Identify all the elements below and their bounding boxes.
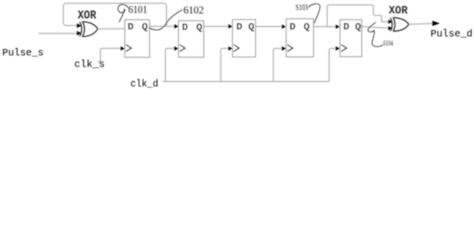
wire Q4 over-route staircase to XOR2 top input: [327, 5, 388, 27]
svg-text:6101: 6101: [128, 5, 147, 16]
clock chevron U3: [234, 45, 239, 52]
wire clk_d riser U4: [273, 48, 281, 81]
wire Q4 to D5: [314, 26, 336, 28]
leader S103: [309, 4, 321, 29]
clock arrow U5: [336, 46, 340, 50]
wire Q5 to XOR2 bottom input: [362, 27, 388, 29]
wire Q2 to D3: [204, 25, 229, 27]
flip-flop U5 box: [340, 20, 362, 57]
flip-flop U2 box: [179, 21, 204, 58]
svg-text:Q: Q: [248, 23, 254, 34]
leader 6102: [149, 10, 183, 30]
clock arrow U1: [121, 46, 125, 50]
arrow into D3: [228, 24, 232, 28]
arrow XOR1 input bottom: [77, 31, 82, 36]
svg-text:XOR: XOR: [78, 9, 97, 23]
svg-text:6102: 6102: [183, 6, 203, 17]
clock arrow U4: [282, 46, 286, 50]
gate XOR2: [390, 18, 408, 32]
leader 6104: [368, 22, 383, 46]
wire XOR2 output: [409, 23, 433, 26]
svg-text:Pulse_d: Pulse_d: [431, 28, 473, 40]
wire clk_d rail: [165, 81, 329, 83]
svg-text:Pulse_s: Pulse_s: [2, 47, 44, 59]
svg-text:D: D: [236, 23, 242, 34]
tick clk_d rail foot: [163, 81, 168, 83]
wire clk_d riser U3: [221, 48, 228, 81]
arrow into D5: [336, 25, 340, 29]
arrow XOR2 input bottom: [388, 26, 392, 30]
flip-flop U3 box: [233, 20, 256, 57]
gate XOR1: [80, 22, 98, 37]
clock chevron U4: [287, 45, 292, 52]
svg-text:D: D: [343, 23, 349, 34]
wire XOR1 output to D1: [98, 28, 125, 30]
arrow Pulse_d: [432, 21, 440, 26]
svg-text:D: D: [290, 23, 296, 34]
arrow into D4: [282, 25, 286, 29]
clock chevron U2: [180, 45, 185, 52]
clock arrow U2: [174, 46, 178, 50]
clock arrow U3: [228, 46, 232, 50]
wire clk_d riser U2: [165, 48, 174, 81]
tick clk_s wire foot: [98, 61, 103, 63]
flip-flop U4 box: [286, 19, 313, 57]
wire Q1 to D2: [150, 25, 175, 27]
wire clk_d riser U5: [329, 48, 335, 81]
svg-text:D: D: [128, 23, 134, 34]
svg-text:Q: Q: [142, 23, 148, 34]
wire clk_s: [100, 48, 120, 61]
leader 6101: [118, 4, 129, 22]
svg-text:6104: 6104: [383, 40, 393, 48]
clock chevron U5: [341, 45, 346, 52]
arrow into D2: [174, 24, 178, 28]
wire feedback from Q1 node over the top to XOR1: [63, 3, 166, 26]
svg-text:clk_s: clk_s: [74, 59, 105, 71]
arrow XOR1 input top: [77, 23, 82, 28]
wire Q3 to D4: [256, 26, 282, 28]
svg-text:S103: S103: [296, 3, 308, 12]
svg-text:Q: Q: [355, 23, 361, 34]
svg-text:clk_d: clk_d: [130, 79, 158, 91]
svg-text:D: D: [182, 23, 188, 34]
clock chevron U1: [126, 45, 131, 52]
svg-text:Q: Q: [304, 23, 310, 34]
svg-text:Q: Q: [196, 23, 202, 34]
wire Pulse_s input: [39, 32, 78, 34]
svg-text:XOR: XOR: [389, 6, 408, 18]
flip-flop U1 box: [125, 20, 150, 58]
arrow XOR2 input top: [388, 20, 392, 24]
